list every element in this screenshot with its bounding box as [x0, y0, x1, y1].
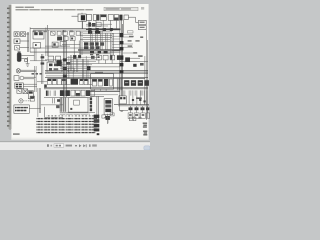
oil level gauge: [14, 39, 29, 44]
wire right-angle: [120, 95, 129, 110]
bottom right tiny boxes: [130, 117, 142, 121]
top component row: [87, 15, 129, 21]
switch row B: [57, 37, 75, 41]
wire long verticals bottom: [90, 96, 104, 122]
wire right bus: [120, 58, 148, 61]
wire pair mid-left: [30, 54, 47, 84]
wire center bundle verticals: [64, 30, 67, 97]
wire stubs right of bundle: [123, 34, 136, 53]
right tick pairs row: [123, 90, 147, 95]
relay box small: [33, 43, 41, 49]
wire mid horizontals: [45, 60, 120, 67]
TCI unit label box: [14, 105, 41, 113]
wire left bundle: [27, 27, 30, 52]
wire relay verticals: [74, 41, 84, 81]
wire mid links: [86, 24, 112, 26]
igniter unit box: [91, 72, 114, 90]
wire under rows: [44, 97, 92, 99]
wire center-left verticals: [34, 28, 49, 61]
starter switch boxes: [48, 56, 61, 61]
wire right edge verticals: [145, 30, 148, 120]
wire stubs left of bundle: [112, 33, 120, 50]
wire mid-left verticals: [35, 66, 41, 117]
tail lamp: [14, 76, 36, 81]
wire bottom horizontals: [60, 113, 95, 114]
right margin labels: [127, 31, 143, 54]
wire vertical drops right: [130, 106, 147, 113]
bundle blobs: [63, 58, 67, 77]
wire bus mid: [30, 48, 95, 52]
wire to right boxes: [124, 17, 139, 33]
stator marks column: [90, 97, 92, 111]
top-right revision strip: [104, 7, 144, 11]
bus blobs lower: [90, 51, 108, 59]
wire harness bus: [45, 49, 121, 52]
meter gauge 1: [14, 32, 19, 37]
footer glyphs: [47, 144, 97, 147]
wire top bus: [30, 29, 121, 30]
meter gauge 2: [20, 32, 28, 37]
label 12V: [138, 55, 142, 57]
rectifier cluster: [125, 57, 143, 66]
mid component row above igniter: [97, 55, 121, 63]
binding strip: [7, 5, 12, 130]
right bottom boxes: [128, 113, 149, 119]
loom hatch column: [60, 97, 67, 112]
legend parts list: [36, 114, 96, 133]
bus junction swells: [88, 28, 113, 31]
switch row A: [51, 31, 81, 35]
diode unit: [24, 57, 27, 63]
connector row upper: [47, 78, 92, 84]
harness hatch right: [117, 78, 122, 90]
wire mid extra: [46, 55, 100, 80]
alternator marks: [136, 97, 142, 99]
fuel sender: [15, 46, 29, 50]
wires from row to bus: [89, 20, 116, 28]
right connector dashes: [129, 107, 150, 110]
ground bottom: [120, 110, 123, 111]
dimmer box: [52, 42, 66, 48]
connector row dark A: [84, 42, 104, 45]
junction cluster: [88, 22, 101, 27]
switch cross box: [23, 89, 28, 94]
footer bar: [0, 142, 150, 150]
wire riser: [46, 25, 48, 29]
right top boxes: [139, 20, 147, 29]
handlebar switch block: [15, 83, 37, 88]
title line 1: [16, 7, 35, 8]
flasher relay can: [17, 51, 34, 61]
relay pair blobs: [73, 55, 81, 59]
footer right button: [144, 146, 150, 150]
connector dashes on pair: [32, 56, 47, 87]
wire right drops to bus: [129, 90, 147, 104]
connector row lower: [46, 90, 94, 96]
ignition coil block: [72, 13, 87, 29]
fuse holder: [17, 89, 22, 93]
starter relay box: [119, 96, 126, 110]
main harness horizontal buses: [45, 71, 148, 79]
page number: [13, 133, 20, 135]
ground hatch: [26, 64, 30, 66]
wire center verticals: [81, 31, 114, 58]
sidestand relay: [28, 91, 33, 99]
connector marks on drops: [132, 99, 146, 102]
dark junction block: [57, 60, 62, 66]
wire L-path bottom-left: [41, 105, 63, 117]
viewer background: [0, 0, 150, 150]
small boxes right of legend: [102, 113, 114, 124]
title line 2: [16, 9, 93, 10]
big bottom box: [68, 98, 88, 112]
wire right bottom bus: [114, 105, 149, 106]
legend column gaps: [43, 114, 89, 133]
junction blobs: [88, 31, 100, 34]
instrument cluster box: [33, 31, 44, 39]
pickup coil circle: [19, 99, 31, 103]
small box mid: [68, 68, 74, 72]
page: [11, 4, 148, 140]
main switch box: [47, 62, 62, 72]
dark node: [87, 66, 91, 70]
legend dark column: [94, 115, 100, 136]
connector row dark B: [84, 46, 100, 49]
right edge part numbers: [143, 123, 148, 136]
turn signal lamp: [16, 69, 36, 73]
bundle junction blobs: [119, 33, 123, 73]
center dense lines: [45, 32, 112, 54]
main harness vertical bundle: [120, 20, 123, 96]
battery box: [104, 99, 112, 124]
node ticks under bus: [33, 30, 73, 33]
right connector blocks row: [124, 80, 149, 86]
sensor cluster bottom-left: [30, 96, 60, 108]
wire bus lower: [44, 88, 148, 95]
